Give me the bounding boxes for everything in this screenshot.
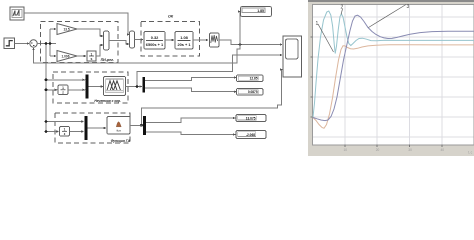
wire demux2 to display2: [145, 78, 236, 81]
wire sum to PI box with branch junction: [37, 29, 56, 56]
svg-text:10: 10: [344, 148, 348, 152]
transfer fcn TF1: [144, 32, 165, 50]
mux3 black bar: [85, 116, 88, 140]
svg-text:1: 1: [316, 21, 319, 27]
diagram panel background: [0, 0, 308, 156]
feedback wire to sum: [34, 45, 241, 64]
gain K2: [57, 51, 77, 62]
svg-text:s: s: [91, 57, 93, 61]
svg-text:0.0875: 0.0875: [248, 90, 258, 94]
wire demux3 to display4: [146, 118, 236, 122]
wire add to mux1: [109, 41, 129, 45]
wire error to delay1: [46, 89, 57, 91]
svg-text:40: 40: [441, 148, 445, 152]
signal builder icon: [12, 10, 22, 18]
svg-text:1.006: 1.006: [62, 54, 70, 58]
wire error to mux2 top: [46, 79, 85, 81]
wire error to mux3 top: [46, 121, 84, 123]
label 1 with leader: [318, 5, 406, 53]
unit delay 2: [60, 127, 70, 137]
gain K1: [57, 24, 77, 35]
svg-text:3: 3: [407, 4, 410, 10]
MATLAB function block: [107, 117, 130, 135]
svg-text:-2.068: -2.068: [246, 133, 255, 137]
scope block: [283, 36, 302, 77]
svg-text:13.075: 13.075: [246, 116, 256, 120]
wire gain K2 to integrator: [77, 55, 86, 57]
wire delay1 to mux2: [68, 89, 85, 91]
wire demux3 to display5: [146, 132, 236, 135]
wire saturation to junction and scope: [219, 40, 282, 45]
curve blue (medium wide response): [313, 15, 474, 120]
wire error to delay2: [46, 131, 59, 133]
wire demux2 to display3: [145, 88, 236, 92]
display4: [236, 115, 266, 122]
display1: [241, 7, 272, 17]
svg-text:12.85: 12.85: [250, 77, 258, 81]
integrator 1/s: [87, 51, 96, 61]
fuzzy logic block: [104, 77, 126, 96]
svg-text:1.85: 1.85: [257, 9, 264, 13]
svg-text:t, c: t, c: [468, 151, 473, 155]
wire junction up to display1: [239, 12, 241, 45]
PI controller dashed box: [41, 22, 119, 63]
svg-text:0.32: 0.32: [151, 35, 159, 40]
mux2 black bar: [86, 75, 89, 99]
mux1 block: [130, 31, 135, 48]
svg-text:ОК: ОК: [168, 14, 174, 18]
svg-text:Функция ГА: Функция ГА: [111, 139, 131, 143]
axis ticks: [311, 37, 442, 147]
gridlines: [313, 5, 474, 145]
curve orange (slow low response): [313, 45, 474, 129]
svg-text:13.5: 13.5: [64, 27, 70, 31]
svg-text:20: 20: [376, 148, 380, 152]
x axis tick label smudges: [344, 148, 473, 155]
demux2 black bar: [143, 77, 146, 93]
plot white area: [313, 5, 474, 146]
demux3 black bar: [143, 116, 146, 135]
add block: [104, 31, 110, 50]
svg-text:Нечеткая с окр.: Нечеткая с окр.: [94, 99, 121, 103]
step icon: [6, 41, 13, 46]
wire fuzzy out with junction: [126, 55, 283, 87]
wire step to sum: [15, 43, 30, 45]
svg-text:20s + 1: 20s + 1: [177, 42, 191, 47]
display3: [237, 88, 264, 95]
wire mux1 to TF1: [135, 39, 144, 41]
signal builder block: [10, 7, 24, 20]
svg-text:ПИ-рег.: ПИ-рег.: [101, 58, 114, 62]
transfer fcn TF2: [175, 32, 193, 50]
OK plant dashed box: [141, 22, 200, 57]
wire mux3 to GA block: [87, 127, 106, 129]
curve teal (fast oscillatory response): [313, 11, 474, 117]
display2: [237, 75, 264, 82]
wire TF2 to saturation: [193, 39, 208, 41]
wire delay2 to mux3: [70, 131, 84, 133]
unit delay 1: [58, 85, 68, 95]
saturation block: [210, 33, 220, 47]
svg-text:2: 2: [341, 5, 344, 11]
svg-text:30: 30: [408, 148, 412, 152]
wire gain K1 to add: [77, 29, 103, 36]
error distribution vertical wire: [45, 44, 47, 132]
sum junction: [30, 40, 37, 47]
step block: [4, 38, 15, 49]
svg-text:fcn: fcn: [116, 128, 121, 132]
display5: [236, 131, 266, 139]
wire from signal builder to mux1: [24, 13, 129, 35]
wire mux2 to fuzzy block: [88, 86, 103, 88]
fuzzy controller dashed box: [53, 72, 128, 103]
wire integrator to add: [96, 45, 103, 56]
wire TF1 to TF2: [165, 39, 174, 41]
GA controller dashed box: [55, 113, 130, 143]
svg-text:1.08: 1.08: [180, 35, 188, 40]
svg-text:6500s + 1: 6500s + 1: [146, 42, 164, 47]
figure gray background: [308, 0, 474, 156]
wire GA out with junction: [130, 70, 283, 126]
